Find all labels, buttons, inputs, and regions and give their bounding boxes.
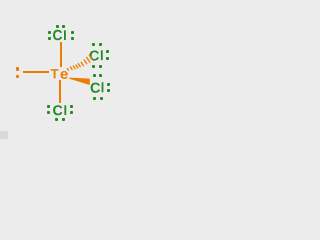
lone pair right of lower-right Cl [107,83,110,86]
lone pair left of bottom Cl [47,105,50,108]
lone pair below bottom Cl [55,118,58,121]
chlorine Cl bottom axial [53,105,62,115]
lone pair right of upper-right Cl [106,50,109,53]
wire bond Te to top Cl [60,42,62,67]
wire line from Te to its lone pair [23,71,49,73]
lone pair below lower-right Cl [93,97,96,100]
corner mark bottom-left [0,131,8,139]
lone pair dots on Te [16,67,19,70]
chlorine Cl top axial [53,30,62,40]
chlorine Cl lower right wedge [91,83,100,93]
lone pair above upper-right Cl [92,43,95,46]
solid wedge bond Te to lower-right Cl [69,78,90,85]
lone pair above top Cl [56,25,59,28]
hashed wedge bond Te to upper-right Cl [67,55,92,70]
lone pair below upper-right Cl [92,65,95,68]
tellurium Te central atom [51,69,59,78]
wire bond Te to bottom Cl [59,80,61,103]
lone pair above lower-right Cl [93,74,96,77]
lone pair left of top Cl [48,31,51,34]
lone pair right of bottom Cl [70,105,73,108]
lone pair right of top Cl [71,31,74,34]
wedge bonds [0,0,130,144]
chlorine Cl upper right hashed [90,50,99,60]
